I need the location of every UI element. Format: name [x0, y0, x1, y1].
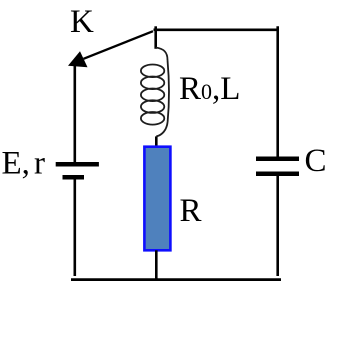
svg-text:R0,L: R0,L — [179, 71, 240, 107]
resistor R body — [144, 147, 170, 251]
capacitor C bottom plate — [256, 172, 299, 177]
inductor L coil loop 1 — [141, 65, 164, 78]
wire resistor to bottom — [155, 250, 158, 278]
wire top horizontal — [154, 28, 279, 31]
wire bottom horizontal — [71, 278, 281, 281]
svg-text:R: R — [180, 193, 202, 229]
inductor L coil loop 3 — [141, 89, 164, 102]
inductor L coil lead top hook — [156, 48, 168, 61]
inductor L coil loop 2 — [141, 77, 164, 90]
capacitor C top plate — [256, 157, 299, 162]
svg-text:E,r: E,r — [2, 146, 46, 182]
svg-text:K: K — [70, 4, 94, 40]
switch K arrowhead — [68, 51, 88, 67]
wire left lower (battery to bottom) — [74, 180, 77, 277]
wire right lower (capacitor to bottom) — [276, 176, 279, 276]
wire coil to resistor — [155, 136, 158, 147]
svg-text:C: C — [305, 143, 327, 179]
wire left upper (arrow to battery) — [74, 60, 77, 163]
battery E long plate — [56, 162, 99, 167]
battery E short plate — [63, 175, 85, 180]
inductor L coil loop 5 — [141, 112, 164, 125]
inductor L coil loop 4 — [141, 100, 164, 113]
wire right upper (top to capacitor) — [276, 26, 279, 157]
node stub top center — [154, 26, 157, 49]
switch K blade — [84, 31, 154, 59]
inductor L coil backbone right — [168, 60, 169, 122]
inductor L coil lead bottom hook — [156, 122, 167, 136]
